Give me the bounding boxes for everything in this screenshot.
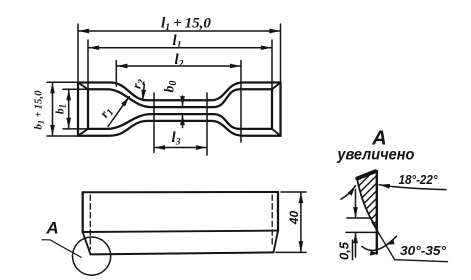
- dimension line l1+15,0: [79, 30, 280, 32]
- arc arrowhead on slant: [386, 239, 394, 244]
- 0,5 dim upper leg: [355, 190, 357, 218]
- extension line b1+15 top: [47, 81, 77, 83]
- svg-text:A: A: [45, 219, 58, 238]
- blade bevel edge: [357, 179, 376, 228]
- bevel angle curved arrow: [341, 186, 356, 200]
- r1 leader: [108, 97, 129, 127]
- 0,5 dim lower leg: [355, 233, 357, 257]
- extension line l2 left: [115, 61, 117, 87]
- extension line right inner: [271, 40, 273, 89]
- hidden edge dashed right: [271, 195, 273, 246]
- miter corner TR: [272, 83, 281, 90]
- extension line l3 left: [153, 93, 155, 153]
- side view top edge: [83, 191, 278, 193]
- 18-22 leader: [379, 185, 446, 190]
- dimension line l3: [155, 147, 207, 149]
- svg-text:r2: r2: [129, 77, 148, 90]
- svg-text:18°-22°: 18°-22°: [399, 173, 439, 187]
- dimension line b1+15,0: [52, 83, 54, 135]
- extension line l2 right: [240, 61, 242, 143]
- bevel shoulder line: [83, 231, 278, 232]
- extension line b1+15 bottom: [47, 135, 77, 137]
- detail circle A: [73, 237, 111, 275]
- left bevel slant: [83, 232, 91, 254]
- dimension line l1: [89, 47, 272, 49]
- svg-text:b0: b0: [162, 81, 180, 93]
- side view left end edge: [82, 192, 84, 232]
- b0 dimension lower leg: [182, 115, 184, 128]
- extension line left outer: [77, 24, 79, 82]
- svg-text:увеличено: увеличено: [336, 147, 414, 164]
- svg-text:30°-35°: 30°-35°: [400, 244, 447, 258]
- svg-text:l3: l3: [172, 130, 181, 148]
- 0,5 extension line lower: [346, 231, 377, 233]
- leader to A: [42, 240, 81, 258]
- miter corner TL: [78, 83, 88, 90]
- cutting edge bottom line: [91, 252, 274, 254]
- 30-35 slant line: [372, 222, 448, 262]
- svg-text:b1: b1: [55, 104, 68, 114]
- b0 dimension upper leg: [182, 96, 184, 107]
- miter corner BR: [272, 129, 281, 136]
- svg-text:0,5: 0,5: [337, 241, 352, 260]
- extension line 40 top: [281, 191, 306, 193]
- r2 leader: [143, 84, 145, 100]
- extension line b1 top: [63, 88, 87, 90]
- extension line l3 right: [206, 93, 208, 155]
- hidden edge dashed left: [89, 195, 91, 249]
- 0,5 extension line upper: [347, 217, 371, 219]
- arc arrowhead on vertical: [370, 251, 379, 256]
- svg-text:l1 + 15,0: l1 + 15,0: [161, 16, 211, 34]
- blade right face (vertical): [376, 171, 378, 254]
- blade top cap: [357, 171, 375, 178]
- knife outer contour: [78, 83, 281, 136]
- svg-text:l1: l1: [173, 33, 182, 51]
- dimension line 40: [300, 193, 302, 252]
- extension line b1 bottom: [63, 128, 87, 130]
- svg-text:l2: l2: [175, 52, 184, 70]
- extension line left inner: [87, 40, 89, 89]
- dimension line b1: [68, 90, 70, 128]
- 0,5 underline: [352, 240, 354, 260]
- svg-text:b1 + 15,0: b1 + 15,0: [33, 90, 46, 130]
- 30-35 angle arc: [362, 236, 397, 250]
- dimension line l2: [117, 65, 240, 67]
- right bevel slant: [274, 231, 279, 253]
- extension line 40 bottom: [276, 251, 306, 253]
- knife inner contour: [88, 89, 272, 129]
- extension line right outer: [280, 24, 282, 82]
- hatching: [359, 173, 377, 224]
- svg-text:40: 40: [287, 211, 301, 226]
- side view right end edge: [277, 192, 279, 231]
- miter corner BL: [78, 129, 88, 136]
